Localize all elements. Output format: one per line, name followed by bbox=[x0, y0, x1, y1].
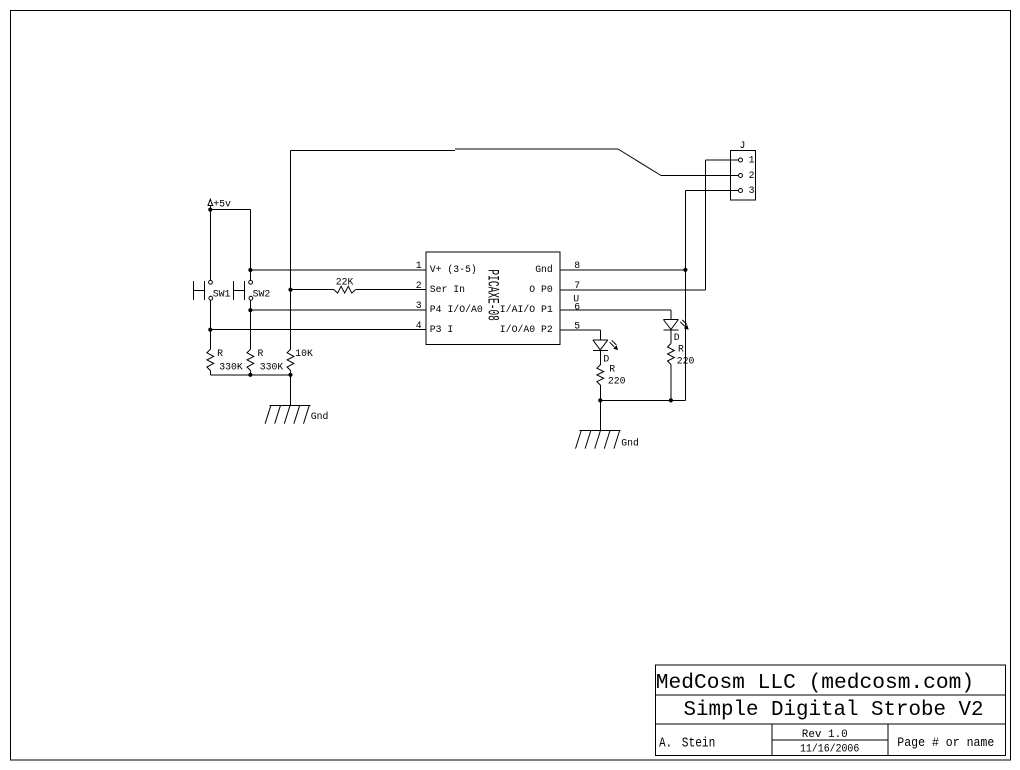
svg-text:10K: 10K bbox=[295, 348, 313, 359]
resistor R5 220 bbox=[597, 365, 604, 385]
svg-text:11/16/2006: 11/16/2006 bbox=[800, 743, 859, 756]
wire pin7 P0 bbox=[560, 289, 706, 291]
svg-text:7: 7 bbox=[574, 280, 580, 291]
wire SW2 to R2 bbox=[249, 300, 251, 349]
svg-text:R: R bbox=[609, 363, 615, 374]
ground symbol left bbox=[269, 405, 310, 407]
svg-text:V+ (3-5): V+ (3-5) bbox=[430, 264, 477, 275]
resistor R1 330K bbox=[207, 349, 214, 370]
svg-text:R: R bbox=[678, 343, 684, 354]
wire pin6 P1 bbox=[560, 309, 671, 311]
wire pin8 Gnd bbox=[560, 269, 685, 271]
pushbutton switch SW2 bbox=[249, 280, 253, 284]
resistor R4 22K bbox=[334, 286, 355, 293]
svg-text:1: 1 bbox=[749, 155, 755, 166]
wire serial vertical drop bbox=[290, 150, 292, 349]
wire rail to left ground bbox=[290, 375, 292, 406]
wire D2 to R6 bbox=[670, 330, 672, 343]
wire 22K to pin2 bbox=[355, 289, 426, 291]
svg-text:6: 6 bbox=[574, 302, 580, 313]
+5v power symbol bbox=[208, 199, 213, 205]
wire SW1 to R1 bbox=[209, 300, 211, 349]
svg-text:+5v: +5v bbox=[213, 199, 231, 210]
title date text bbox=[800, 743, 859, 756]
wire +5v stem to SW1 bbox=[209, 205, 211, 280]
wire LED ground rail bbox=[600, 399, 685, 401]
svg-text:1: 1 bbox=[416, 260, 422, 271]
wire pin5 P2 bbox=[560, 329, 600, 331]
svg-text:4: 4 bbox=[416, 320, 422, 331]
svg-text:A.: A. bbox=[659, 735, 672, 751]
ground symbol right bbox=[580, 430, 621, 432]
svg-text:2: 2 bbox=[416, 280, 422, 291]
svg-text:Rev 1.0: Rev 1.0 bbox=[802, 729, 848, 741]
wire R2 bottom bbox=[249, 371, 251, 375]
svg-text:SW2: SW2 bbox=[253, 289, 271, 300]
node D2 rail junction bbox=[669, 398, 673, 402]
svg-text:3: 3 bbox=[416, 300, 422, 311]
svg-text:22K: 22K bbox=[336, 277, 354, 288]
node SW2 / pin3 junction bbox=[248, 308, 252, 312]
wire top serial net bbox=[291, 149, 456, 151]
wire rail to right ground bbox=[599, 400, 601, 430]
svg-text:P3 I: P3 I bbox=[430, 324, 454, 335]
node serial / 22K junction bbox=[288, 288, 292, 292]
wire R5 to rail bbox=[599, 385, 601, 400]
title page text bbox=[897, 736, 994, 751]
title block frame bbox=[655, 665, 1005, 756]
wire D1 to R5 bbox=[599, 351, 601, 365]
LED D2 bbox=[663, 319, 678, 321]
LED D1 bbox=[593, 339, 608, 341]
node rail / 10K junction bbox=[288, 373, 292, 377]
wire diagonal to J2 bbox=[618, 149, 661, 176]
svg-text:220: 220 bbox=[677, 356, 695, 367]
svg-text:330K: 330K bbox=[260, 362, 284, 373]
wire into J pin2 bbox=[661, 175, 739, 177]
wire P1 drop to D2 bbox=[670, 310, 672, 320]
node SW2 / pin1 junction bbox=[248, 268, 252, 272]
svg-text:O P0: O P0 bbox=[529, 284, 553, 295]
wire pin1 V+ bbox=[250, 269, 426, 271]
wire R6 to rail bbox=[670, 365, 672, 401]
resistor R2 330K bbox=[247, 349, 254, 370]
wire P2 drop to D1 bbox=[599, 330, 601, 340]
svg-text:220: 220 bbox=[608, 376, 626, 387]
svg-text:MedCosm LLC (medcosm.com): MedCosm LLC (medcosm.com) bbox=[656, 671, 974, 695]
svg-text:Stein: Stein bbox=[682, 735, 716, 751]
svg-text:Ser In: Ser In bbox=[430, 284, 465, 295]
svg-text:R: R bbox=[258, 348, 264, 359]
wire R1 bottom bbox=[209, 371, 211, 375]
svg-text:D: D bbox=[674, 332, 680, 343]
svg-text:Page # or name: Page # or name bbox=[897, 736, 994, 751]
resistor R3 10K bbox=[287, 349, 294, 370]
wire P0 vertical to J1 bbox=[705, 160, 707, 290]
wire pin4 P3 bbox=[210, 329, 426, 331]
svg-text:Gnd: Gnd bbox=[535, 264, 553, 275]
svg-text:Gnd: Gnd bbox=[621, 437, 639, 448]
wire 22K left lead bbox=[291, 289, 335, 291]
wire ground rail left bbox=[210, 374, 290, 376]
svg-text:2: 2 bbox=[749, 170, 755, 181]
resistor R6 220 bbox=[668, 344, 675, 365]
wire Gnd vertical bbox=[684, 191, 686, 401]
wire pin3 P4 bbox=[250, 309, 426, 311]
svg-text:SW1: SW1 bbox=[213, 289, 231, 300]
node SW1 / pin4 junction bbox=[208, 328, 212, 332]
wire 10K bottom bbox=[290, 371, 292, 375]
svg-text:I/O/A0 P2: I/O/A0 P2 bbox=[500, 324, 553, 335]
svg-text:I/AI/O P1: I/AI/O P1 bbox=[500, 304, 553, 315]
node D1 rail junction bbox=[598, 398, 602, 402]
svg-text:PICAXE-08: PICAXE-08 bbox=[483, 269, 501, 321]
wire +5v branch to SW2 bbox=[210, 209, 250, 211]
svg-text:J: J bbox=[740, 140, 746, 151]
op-amp U1 PICAXE-08 IC bbox=[426, 252, 560, 345]
svg-text:Gnd: Gnd bbox=[311, 411, 329, 422]
wire into J pin3 bbox=[685, 190, 738, 192]
node +5v junction bbox=[208, 208, 212, 212]
svg-text:Simple Digital Strobe V2: Simple Digital Strobe V2 bbox=[684, 699, 984, 722]
svg-text:R: R bbox=[217, 348, 223, 359]
node rail / R2 junction bbox=[248, 373, 252, 377]
title author text bbox=[659, 735, 672, 751]
svg-text:3: 3 bbox=[749, 185, 755, 196]
pushbutton switch SW1 bbox=[209, 280, 213, 284]
connector J 3-pin header bbox=[731, 151, 756, 201]
node Gnd vertical junction bbox=[683, 268, 687, 272]
svg-text:330K: 330K bbox=[219, 362, 243, 373]
svg-text:P4 I/O/A0: P4 I/O/A0 bbox=[430, 304, 483, 315]
wire into J pin1 bbox=[706, 159, 739, 161]
